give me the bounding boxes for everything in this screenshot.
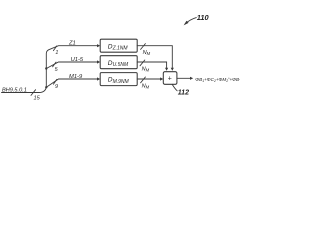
block DM9NM bbox=[100, 73, 137, 86]
figure ref arrow 110 bbox=[184, 18, 197, 26]
svg-text:M1-9: M1-9 bbox=[69, 74, 83, 80]
arrowhead DZ into summer bbox=[171, 68, 174, 71]
arrowhead into DZ block bbox=[97, 44, 100, 47]
slash 9 bbox=[53, 79, 56, 84]
wire summer output bbox=[177, 77, 190, 79]
svg-text:NM: NM bbox=[142, 83, 150, 89]
slash NM middle bbox=[140, 60, 145, 66]
svg-text:DZ.1NM: DZ.1NM bbox=[108, 43, 129, 51]
block DZ1NM bbox=[100, 39, 137, 52]
svg-text:DU.5NM: DU.5NM bbox=[108, 60, 129, 68]
arrowhead DM into summer bbox=[160, 77, 163, 80]
svg-text:NM: NM bbox=[143, 50, 151, 56]
summer 112 bbox=[163, 72, 177, 85]
slash NM top bbox=[141, 44, 146, 50]
arrowhead DU into summer bbox=[165, 68, 168, 71]
wire DZ output to summer top bbox=[137, 46, 172, 70]
bus width slash 15 bbox=[31, 90, 36, 96]
svg-text:9: 9 bbox=[55, 84, 58, 90]
wire DU output to summer top bbox=[137, 62, 166, 69]
svg-text:NM: NM bbox=[142, 66, 150, 72]
svg-text:1: 1 bbox=[55, 50, 58, 56]
slash 5 bbox=[53, 62, 56, 67]
svg-text:Z1: Z1 bbox=[68, 41, 76, 47]
svg-text:ΦB1+ΦC2+ΦM2*+ΦB–: ΦB1+ΦC2+ΦM2*+ΦB– bbox=[195, 77, 240, 83]
slash NM bottom bbox=[141, 77, 146, 83]
slash 1 bbox=[53, 46, 56, 51]
svg-text:5: 5 bbox=[55, 67, 59, 73]
arrowhead into DM block bbox=[97, 77, 100, 80]
svg-text:110: 110 bbox=[197, 13, 210, 22]
wire input bus and branch Z1 bbox=[2, 46, 99, 93]
leader line to 112 bbox=[172, 84, 177, 90]
svg-text:DM.9NM: DM.9NM bbox=[108, 77, 130, 85]
svg-text:U1-5: U1-5 bbox=[71, 57, 84, 63]
svg-text:15: 15 bbox=[34, 96, 41, 102]
junction dot branch U bbox=[45, 67, 47, 69]
block DU5NM bbox=[100, 56, 137, 69]
wire branch M1-9 bbox=[46, 79, 99, 87]
wire DM output to summer left bbox=[137, 78, 162, 80]
wire branch U1-5 bbox=[46, 62, 99, 69]
arrowhead summer output bbox=[190, 77, 193, 80]
svg-text:112: 112 bbox=[178, 89, 189, 96]
arrowhead into DU block bbox=[97, 60, 100, 63]
svg-text:+: + bbox=[168, 76, 172, 83]
junction dot branch M bbox=[45, 86, 47, 88]
